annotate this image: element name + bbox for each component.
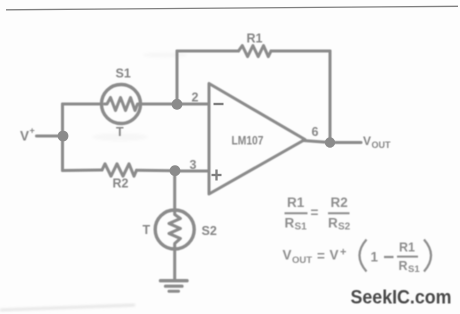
svg-text:V: V xyxy=(283,248,292,263)
faint scan smudge bottom-left xyxy=(0,305,135,310)
node V+ junction xyxy=(58,131,69,142)
svg-text:V: V xyxy=(363,134,371,148)
wire V+ lead xyxy=(37,135,64,138)
svg-text:R1: R1 xyxy=(287,195,305,210)
thermistor S2 xyxy=(155,210,194,249)
node 2 junction xyxy=(172,99,183,110)
svg-text:2: 2 xyxy=(192,91,199,105)
wire node 3 down to S2 xyxy=(173,171,176,210)
top border rule xyxy=(6,6,458,10)
svg-text:OUT: OUT xyxy=(372,140,391,151)
wire upper branch to S1 xyxy=(63,103,102,106)
equation 1: R1/RS1 = R2/RS2 xyxy=(285,195,351,233)
svg-text:3: 3 xyxy=(190,158,197,172)
svg-text:R: R xyxy=(285,216,295,231)
svg-text:1: 1 xyxy=(371,250,379,265)
svg-text:6: 6 xyxy=(312,125,319,139)
wire left vertical bus xyxy=(61,104,64,171)
op-amp minus input marker xyxy=(214,103,224,105)
wire feedback dropper to output xyxy=(329,51,332,143)
ground xyxy=(161,281,188,292)
wire feedback top left segment xyxy=(177,50,239,53)
svg-text:T: T xyxy=(116,125,124,139)
wire S1 to node 2 xyxy=(141,103,178,106)
svg-text:T: T xyxy=(143,223,151,237)
thermistor S1 xyxy=(102,85,141,124)
svg-text:V: V xyxy=(20,129,29,144)
svg-text:=: = xyxy=(317,249,325,264)
wire feedback riser xyxy=(176,51,179,104)
svg-text:R2: R2 xyxy=(331,195,348,210)
faint ghost marks xyxy=(92,52,187,141)
wire S2 to ground xyxy=(173,249,176,279)
svg-text:R2: R2 xyxy=(113,177,129,191)
node 6 output junction xyxy=(325,137,335,147)
svg-text:S1: S1 xyxy=(408,264,420,275)
label VOUT xyxy=(363,134,391,151)
svg-text:S2: S2 xyxy=(202,224,217,238)
resistor R1 xyxy=(239,46,272,57)
wire output lead xyxy=(303,141,361,143)
svg-text:R: R xyxy=(328,216,338,231)
equation 2: VOUT = V+ (1 - R1/RS1) xyxy=(283,240,432,276)
wire node 2 to op-amp inverting input xyxy=(177,103,209,106)
label V+ source xyxy=(20,126,35,144)
svg-text:R: R xyxy=(399,259,408,273)
node 3 junction xyxy=(170,165,181,176)
wire lower branch to R2 xyxy=(63,169,103,173)
op-amp U1 body xyxy=(209,84,305,195)
svg-text:LM107: LM107 xyxy=(232,134,264,148)
svg-text:+: + xyxy=(340,247,346,259)
svg-text:+: + xyxy=(30,126,35,136)
svg-text:SeekIC.com: SeekIC.com xyxy=(351,287,452,309)
svg-text:R1: R1 xyxy=(247,32,263,46)
svg-text:S1: S1 xyxy=(116,67,131,81)
svg-text:V: V xyxy=(330,248,339,263)
svg-text:OUT: OUT xyxy=(292,255,312,266)
svg-text:S2: S2 xyxy=(338,222,351,233)
svg-text:R1: R1 xyxy=(399,241,415,255)
wire feedback top right segment xyxy=(271,50,330,53)
svg-text:=: = xyxy=(311,205,319,220)
svg-text:S1: S1 xyxy=(295,222,308,233)
resistor R2 xyxy=(102,164,137,176)
wire node 3 to op-amp non-inverting input xyxy=(175,170,209,173)
wire R2 to node 3 xyxy=(137,169,176,172)
op-amp plus input marker xyxy=(212,170,222,181)
